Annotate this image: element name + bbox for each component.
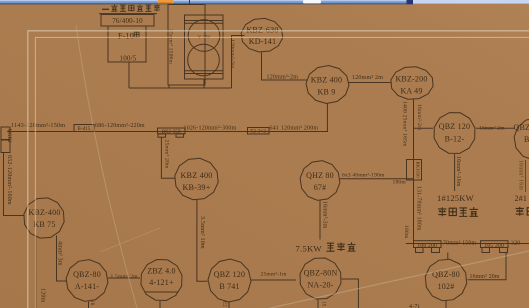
svg-text:25mm²-1m: 25mm²-1m <box>261 272 288 278</box>
svg-text:120m: 120m <box>40 288 46 303</box>
junction box 105-100 <box>481 241 509 253</box>
svg-text:KBZ 400: KBZ 400 <box>180 171 212 180</box>
svg-text:KBZ-200: KBZ-200 <box>395 75 427 84</box>
svg-text:16mm² 2m: 16mm² 2m <box>479 126 505 132</box>
junction box B-d15 <box>74 125 94 133</box>
wire BKJ-350 to KB-39 <box>161 137 175 178</box>
wire A-141 to ZBZ <box>108 277 140 279</box>
load 1#125KW emulsion pump <box>437 193 478 216</box>
svg-text:120mm²-3m: 120mm²-3m <box>229 39 235 69</box>
feeder box F-10 / 100/5 <box>108 26 146 63</box>
svg-text:67#: 67# <box>314 183 327 192</box>
svg-text:KBZ-630: KBZ-630 <box>246 26 278 35</box>
svg-text:QBZ: QBZ <box>514 123 529 132</box>
svg-text:100/5: 100/5 <box>120 55 137 63</box>
scan creases (decorative) <box>76 25 529 308</box>
svg-text:ZBZ 4.0: ZBZ 4.0 <box>147 267 176 276</box>
svg-text:QBZ 120: QBZ 120 <box>439 122 470 131</box>
svg-text:16mm²-2m: 16mm²-2m <box>416 104 422 131</box>
svg-text:3.5mm² 10m: 3.5mm² 10m <box>199 216 205 249</box>
svg-text:1026-120mm²-300m: 1026-120mm²-300m <box>184 125 237 131</box>
starter QBZ-120 B-12 <box>434 113 475 154</box>
svg-text:KD-141: KD-141 <box>249 37 276 46</box>
starter QBZ-80 A-141 <box>66 260 108 302</box>
breaker KBZ-400 KB-75 <box>24 198 64 238</box>
svg-text:KB-39+: KB-39+ <box>182 183 210 192</box>
svg-text:E2: E2 <box>222 301 227 307</box>
svg-text:F-10: F-10 <box>118 32 134 41</box>
svg-text:25mm² 20m: 25mm² 20m <box>164 140 170 170</box>
svg-text:16mm² 20m: 16mm² 20m <box>470 274 500 280</box>
starter QBZ-80 102# <box>425 259 466 300</box>
svg-text:120mm² 2m: 120mm² 2m <box>352 75 383 81</box>
transformer T1 <box>168 5 223 86</box>
svg-text:QBZ-80: QBZ-80 <box>73 270 101 279</box>
wire 2# down <box>525 160 527 192</box>
svg-text:16mm²-3m: 16mm²-3m <box>322 201 328 229</box>
wire horizontal lower link <box>129 87 232 89</box>
svg-text:4-121+: 4-121+ <box>149 278 174 287</box>
starter QBZ-120 B-741 <box>208 259 251 302</box>
wire B-741 to NA-20 <box>251 279 296 281</box>
breaker KBZ-630 KD-141 <box>241 18 283 52</box>
wire transformer top stub <box>189 0 191 5</box>
svg-text:100 200: 100 200 <box>417 243 437 249</box>
wire KB-75 to A-141 <box>57 236 67 282</box>
starter QBZ-80 2# (clipped at edge) <box>514 118 529 160</box>
svg-text:1143-120mm²-150m: 1143-120mm²-150m <box>11 122 65 129</box>
load 2# emulsion pump (clipped) <box>515 194 529 216</box>
wire KB-9 down to bus <box>326 103 328 132</box>
svg-text:NA-20-: NA-20- <box>307 281 333 290</box>
svg-text:641 120mm² 200m: 641 120mm² 200m <box>270 125 319 131</box>
svg-text:B-12-: B-12- <box>445 135 465 144</box>
wire NA-20 right drop <box>342 279 359 308</box>
svg-text:B-d15: B-d15 <box>78 127 91 132</box>
starter QBZ-80N NA-20 <box>300 258 341 299</box>
svg-text:652-120mm²-160m: 652-120mm²-160m <box>6 155 12 205</box>
svg-text:70mm² 150m: 70mm² 150m <box>443 240 476 246</box>
wire KB-9 to KA-49 <box>348 82 391 84</box>
transformer bay box 76/400-10 <box>101 15 154 27</box>
svg-text:120mm²-2m: 120mm²-2m <box>267 75 299 81</box>
wire stub below NA-20 <box>317 300 319 308</box>
wire bus to 102# right side <box>468 253 507 280</box>
svg-text:QBZ 120: QBZ 120 <box>214 270 245 279</box>
wire 67# down to pump <box>319 201 321 240</box>
svg-text:320: 320 <box>511 240 520 246</box>
svg-text:A-141-: A-141- <box>75 282 99 291</box>
wire KB-39 to B-741 <box>197 200 208 281</box>
svg-text:35mm² 1500m: 35mm² 1500m <box>168 29 174 65</box>
svg-text:1400 25mm² 165m: 1400 25mm² 165m <box>402 101 408 147</box>
svg-text:KA 49: KA 49 <box>400 87 422 96</box>
svg-text:Y-7W: Y-7W <box>198 36 211 41</box>
svg-text:KBZ 400: KBZ 400 <box>311 76 342 85</box>
svg-text:KBZ-400: KBZ-400 <box>28 208 60 217</box>
wire KA-49 riser down <box>413 99 415 244</box>
bus wire main horizontal <box>7 131 328 133</box>
wire B-12 to 2# starter <box>476 127 514 129</box>
svg-text:1.5mm² 2m: 1.5mm² 2m <box>111 274 139 280</box>
wire transformer taps <box>169 36 245 89</box>
svg-text:1#125KW: 1#125KW <box>437 193 474 203</box>
svg-text:180m: 180m <box>393 180 407 186</box>
wire stub below B-741 <box>228 302 230 308</box>
svg-text:MGB2: MGB2 <box>6 129 11 144</box>
starter ZBZ-4.0 4-121 <box>141 260 182 301</box>
breaker KBZ-400 KB-39 <box>175 158 218 199</box>
breaker KBZ-200 KA-49 <box>391 67 433 99</box>
load 7.5KW submersible pump <box>296 242 356 253</box>
junction box 100-200 <box>414 241 442 253</box>
svg-text:16mm² 16m: 16mm² 16m <box>518 160 524 190</box>
wire B-12 down <box>454 154 456 191</box>
wire 67# to riser <box>340 178 414 180</box>
svg-text:KB 9: KB 9 <box>318 88 336 97</box>
svg-text:4-7t: 4-7t <box>409 304 420 308</box>
svg-text:16mm²-16m: 16mm²-16m <box>455 156 461 187</box>
svg-text:KB 75: KB 75 <box>33 220 55 229</box>
svg-text:16: 16 <box>89 300 94 306</box>
top browser bar sliver <box>0 0 413 5</box>
terminal boxes at bus left end <box>1 127 11 153</box>
svg-text:102#: 102# <box>438 282 455 291</box>
wire stub below ZBZ <box>159 301 161 308</box>
bottom bus wire <box>406 243 529 245</box>
breaker KBZ-400 KB-9 <box>306 66 349 104</box>
wire left drop to KB-75 <box>4 153 25 216</box>
substation title (Chinese) <box>99 4 160 13</box>
svg-text:QHZ 80: QHZ 80 <box>306 171 334 180</box>
wire bus down to 102# <box>447 253 449 260</box>
svg-text:180m: 180m <box>403 225 409 239</box>
svg-text:686-120mm²-220m: 686-120mm²-220m <box>95 123 145 129</box>
svg-text:T2-3+2: T2-3+2 <box>250 130 266 135</box>
junction box T2-3+2 <box>248 128 270 135</box>
wire KB-75 down to sheet edge <box>35 237 37 308</box>
svg-text:B: B <box>524 135 529 144</box>
wire stub below A-141 <box>88 302 90 308</box>
junction box BKJ-350 <box>158 128 186 137</box>
svg-text:6x3 40mm²-190m: 6x3 40mm²-190m <box>342 173 385 179</box>
svg-text:131-70mm² 180m: 131-70mm² 180m <box>416 186 422 231</box>
svg-text:4mm² 3m: 4mm² 3m <box>57 241 63 266</box>
junction box BKJ-350 on riser <box>407 160 422 181</box>
svg-text:7.5KW: 7.5KW <box>296 244 323 254</box>
wire feeder box down <box>128 62 130 88</box>
svg-text:QBZ-80N: QBZ-80N <box>304 269 338 278</box>
svg-text:76/400-10: 76/400-10 <box>112 17 143 25</box>
starter QBZ-80 67# <box>300 161 340 201</box>
svg-text:BKJ350: BKJ350 <box>416 162 421 179</box>
wire riser tap to B-12 <box>414 127 434 129</box>
svg-text:15: 15 <box>321 301 326 307</box>
svg-text:105 200: 105 200 <box>484 243 504 249</box>
wire stub below 102# <box>445 301 447 308</box>
wire KD-141 to KB-9 <box>262 53 308 81</box>
svg-text:B 741: B 741 <box>219 282 239 291</box>
svg-text:2#1: 2#1 <box>515 194 528 203</box>
